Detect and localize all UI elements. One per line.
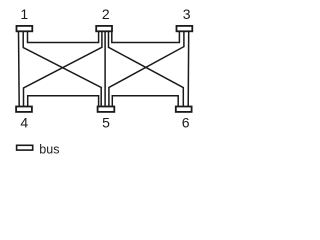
svg-text:bus: bus [39, 142, 59, 156]
svg-text:4: 4 [20, 115, 28, 131]
svg-text:1: 1 [20, 6, 28, 22]
svg-text:3: 3 [183, 6, 191, 22]
svg-text:2: 2 [102, 6, 110, 22]
svg-text:5: 5 [102, 115, 110, 131]
svg-text:6: 6 [182, 115, 190, 131]
